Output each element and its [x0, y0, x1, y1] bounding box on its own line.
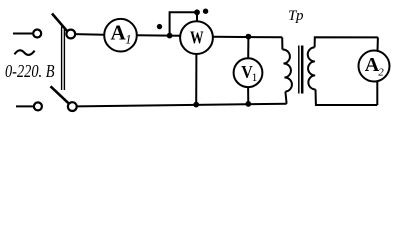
wire: W to transformer primary top: [213, 36, 282, 39]
wire: secondary bottom lead: [316, 89, 378, 105]
svg-text:1: 1: [252, 72, 258, 84]
wire: A1 to W: [137, 34, 181, 37]
wire: top bus switch to A1: [75, 33, 104, 36]
wire: bottom bus: [77, 104, 287, 107]
wire: secondary right top corner: [377, 37, 379, 51]
ammeter A1: [104, 19, 137, 52]
switch S pole2 blade: [51, 86, 69, 103]
node: voltage coil top corner junction: [194, 9, 200, 15]
node: W bottom junction: [193, 102, 199, 108]
AC source tilde symbol: [15, 50, 35, 55]
switch S pole2 pivot terminal: [68, 102, 77, 111]
node: voltage-coil tap junction: [167, 33, 173, 39]
wire: W bottom lead: [195, 54, 197, 105]
wire: primary top corner: [281, 37, 283, 49]
svg-text:A: A: [111, 20, 127, 44]
voltmeter V1: [234, 58, 263, 87]
svg-text:0-220. В: 0-220. В: [5, 61, 55, 81]
node: V1 bottom junction: [245, 101, 251, 107]
transformer T secondary winding: [308, 47, 316, 89]
svg-text:2: 2: [378, 66, 384, 78]
transformer T primary winding: [282, 49, 292, 91]
svg-text:Тр: Тр: [288, 8, 304, 24]
transformer core: [299, 46, 302, 94]
wattmeter W: [180, 21, 213, 54]
wire: wattmeter voltage coil loop: [170, 12, 197, 35]
wire: V1 bottom lead: [247, 87, 249, 104]
switch S pole1 pivot terminal: [66, 30, 75, 39]
switch S pole1 blade: [52, 14, 67, 31]
switch S pole1 left terminal: [33, 30, 41, 38]
svg-text:1: 1: [125, 33, 131, 47]
ammeter A2: [359, 51, 390, 82]
polarity dot: wattmeter voltage coil: [203, 9, 208, 14]
switch S pole2 left terminal: [34, 102, 42, 110]
wire: source top lead: [13, 33, 33, 35]
wire: V1 top lead: [247, 37, 249, 59]
switch S linkage bar: [62, 27, 65, 91]
polarity dot: wattmeter current coil: [157, 24, 162, 29]
wire: secondary top lead: [315, 37, 378, 47]
svg-text:W: W: [190, 27, 204, 47]
wire: primary bottom corner: [285, 92, 286, 104]
wire: A2 bottom lead: [376, 81, 378, 105]
node: V1 top junction: [246, 34, 252, 40]
wire: source bottom lead: [16, 105, 34, 107]
